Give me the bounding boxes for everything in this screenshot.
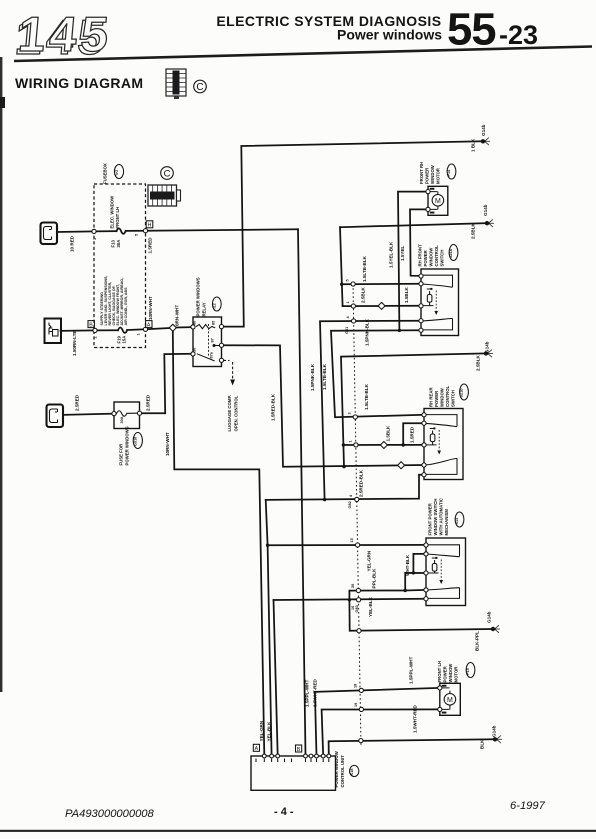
svg-text:YEL-GRN: YEL-GRN <box>259 720 264 741</box>
svg-text:1: 1 <box>137 333 141 335</box>
svg-text:CONTROL: CONTROL <box>445 385 450 407</box>
svg-text:WIRING DIAGRAM: WIRING DIAGRAM <box>15 75 143 91</box>
svg-text:C: C <box>164 169 171 180</box>
svg-text:MOTOR: MOTOR <box>436 167 441 184</box>
svg-text:G82: G82 <box>348 501 352 508</box>
svg-text:RH REAR: RH REAR <box>429 387 434 407</box>
svg-text:1.50RN-LTB: 1.50RN-LTB <box>72 330 77 356</box>
svg-text:POWER WINDOWS: POWER WINDOWS <box>196 277 201 316</box>
svg-text:1.5WHT-RED: 1.5WHT-RED <box>313 678 318 707</box>
svg-text:AIR COND., EGR, ABS: AIR COND., EGR, ABS <box>124 287 128 326</box>
svg-text:FRONT RH: FRONT RH <box>419 162 424 184</box>
svg-text:RH FRONT: RH FRONT <box>418 244 423 267</box>
svg-text:1.5BLK: 1.5BLK <box>386 425 391 442</box>
svg-text:1.5YEL-BLK: 1.5YEL-BLK <box>389 241 394 268</box>
svg-text:S13: S13 <box>455 518 459 525</box>
svg-text:BLK-PPL: BLK-PPL <box>475 631 480 651</box>
svg-text:POWER WINDOWS: POWER WINDOWS <box>125 426 130 465</box>
svg-text:WINDOW: WINDOW <box>440 387 445 407</box>
svg-text:CONTROL: CONTROL <box>434 245 439 267</box>
svg-text:- 4 -: - 4 - <box>274 806 294 818</box>
svg-text:19: 19 <box>354 703 358 707</box>
svg-text:POWER: POWER <box>443 665 448 682</box>
svg-text:S21b: S21b <box>460 388 464 398</box>
svg-text:WITH AUTOMATIC: WITH AUTOMATIC <box>439 498 444 535</box>
svg-text:3: 3 <box>348 412 352 414</box>
svg-text:SWITCH: SWITCH <box>440 250 445 267</box>
svg-text:C: C <box>196 82 203 93</box>
svg-text:2.5BLK: 2.5BLK <box>471 222 476 239</box>
svg-text:G1: G1 <box>114 169 119 175</box>
svg-text:G14b: G14b <box>492 725 497 737</box>
svg-text:WINDOW: WINDOW <box>429 247 434 267</box>
svg-text:OPEN. CONTROL: OPEN. CONTROL <box>234 395 239 431</box>
svg-text:POWER: POWER <box>423 249 428 266</box>
svg-text:10RN-WHT: 10RN-WHT <box>165 432 170 456</box>
svg-text:1.5WHT-RED: 1.5WHT-RED <box>413 704 418 733</box>
svg-text:POWER WINDOW: POWER WINDOW <box>334 750 339 787</box>
svg-text:S21a: S21a <box>449 248 453 258</box>
svg-text:FUSE FOR: FUSE FOR <box>119 443 124 466</box>
svg-text:MECHANISM: MECHANISM <box>444 509 449 536</box>
svg-text:1.5RED: 1.5RED <box>148 237 153 254</box>
svg-text:I12: I12 <box>213 303 217 308</box>
svg-text:K18: K18 <box>350 769 354 776</box>
svg-text:10 RED: 10 RED <box>70 235 75 252</box>
svg-text:-23: -23 <box>499 20 538 50</box>
svg-text:B: B <box>297 747 301 753</box>
svg-text:FRONT LH: FRONT LH <box>115 207 120 229</box>
svg-text:FRONT POWER: FRONT POWER <box>428 502 433 535</box>
svg-text:1.5PPL-WHT: 1.5PPL-WHT <box>305 679 310 707</box>
svg-text:2.5RED-BLK: 2.5RED-BLK <box>359 469 364 497</box>
svg-text:2.5RED: 2.5RED <box>75 394 80 411</box>
svg-text:WINDOW: WINDOW <box>430 164 435 184</box>
svg-text:1: 1 <box>346 301 350 303</box>
svg-text:86: 86 <box>193 321 197 325</box>
svg-text:CONTROL UNIT: CONTROL UNIT <box>340 755 345 788</box>
svg-text:20: 20 <box>351 584 355 588</box>
svg-text:G14b: G14b <box>481 124 486 136</box>
svg-text:A: A <box>255 746 259 752</box>
svg-text:WINDOW SWITCH: WINDOW SWITCH <box>433 499 438 536</box>
svg-text:Power windows: Power windows <box>337 27 442 43</box>
svg-text:1.5LTB-BLK: 1.5LTB-BLK <box>322 363 327 390</box>
svg-text:1 BLK: 1 BLK <box>471 138 476 152</box>
svg-text:G310: G310 <box>134 437 138 446</box>
svg-text:1: 1 <box>348 440 352 442</box>
svg-text:FUSEBOX: FUSEBOX <box>103 163 108 184</box>
svg-text:G81: G81 <box>345 327 349 334</box>
svg-text:2.5RED: 2.5RED <box>146 394 151 411</box>
svg-text:87a: 87a <box>210 351 214 358</box>
svg-text:87: 87 <box>211 338 215 342</box>
svg-text:G14b: G14b <box>485 341 490 353</box>
svg-text:RELAY: RELAY <box>202 302 207 316</box>
svg-text:POWER: POWER <box>425 167 430 184</box>
svg-text:BLK: BLK <box>480 739 485 749</box>
svg-text:A: A <box>147 323 151 329</box>
svg-text:PPL-BLK: PPL-BLK <box>372 568 377 589</box>
svg-text:MOTOR: MOTOR <box>454 666 459 683</box>
svg-text:0RN-WHT: 0RN-WHT <box>175 305 180 326</box>
svg-text:18: 18 <box>354 684 358 688</box>
svg-text:30: 30 <box>193 348 197 352</box>
svg-text:P15: P15 <box>466 668 470 675</box>
svg-text:2.5BLK: 2.5BLK <box>476 354 481 371</box>
svg-text:PA493000000008: PA493000000008 <box>65 808 155 820</box>
svg-text:YEL-GRN: YEL-GRN <box>367 550 372 571</box>
svg-text:WHT-BLK: WHT-BLK <box>405 554 410 576</box>
svg-text:30A: 30A <box>116 240 121 248</box>
svg-text:55: 55 <box>447 4 496 55</box>
svg-text:2: 2 <box>94 336 98 338</box>
svg-text:YEL-BLK: YEL-BLK <box>368 596 373 617</box>
svg-text:1.5RED: 1.5RED <box>410 426 415 443</box>
svg-text:G14b: G14b <box>483 204 488 216</box>
svg-text:P14: P14 <box>447 169 451 177</box>
svg-text:G14b: G14b <box>487 611 492 623</box>
svg-text:M: M <box>447 697 453 704</box>
svg-text:1.5PNK-BLK: 1.5PNK-BLK <box>365 318 370 346</box>
svg-text:YEL-BLK: YEL-BLK <box>267 721 272 742</box>
svg-text:G83: G83 <box>355 605 359 612</box>
svg-text:145: 145 <box>16 8 114 62</box>
svg-text:5: 5 <box>135 234 139 236</box>
svg-text:10RN-WHT: 10RN-WHT <box>148 296 153 320</box>
svg-text:WINDOW: WINDOW <box>448 663 453 683</box>
svg-text:POWER: POWER <box>434 390 439 407</box>
svg-text:1.5LTB-BLK: 1.5LTB-BLK <box>362 255 367 282</box>
svg-text:2.5BLK: 2.5BLK <box>361 286 366 303</box>
svg-text:1.5BLK: 1.5BLK <box>404 286 409 303</box>
svg-text:B: B <box>89 323 93 329</box>
svg-text:1.5RED-BLK: 1.5RED-BLK <box>271 393 276 421</box>
svg-text:5: 5 <box>346 279 350 281</box>
svg-text:1.5LTB-BLK: 1.5LTB-BLK <box>364 383 369 410</box>
svg-text:3: 3 <box>93 238 97 240</box>
svg-text:LUGGAGE COMP.: LUGGAGE COMP. <box>227 395 232 431</box>
svg-text:15: 15 <box>350 538 354 542</box>
svg-text:M: M <box>435 198 441 205</box>
svg-text:1.5YEL: 1.5YEL <box>400 245 405 261</box>
svg-text:1.5PPL-WHT: 1.5PPL-WHT <box>409 656 414 684</box>
svg-text:15A: 15A <box>122 336 127 344</box>
svg-text:6-1997: 6-1997 <box>510 800 546 812</box>
svg-text:1.5PNK-BLK: 1.5PNK-BLK <box>310 363 315 391</box>
svg-text:30A: 30A <box>120 416 124 423</box>
svg-text:FRONT LH: FRONT LH <box>437 661 442 683</box>
svg-text:85: 85 <box>212 321 216 325</box>
svg-text:SWITCH: SWITCH <box>451 390 456 407</box>
svg-text:H: H <box>148 223 152 229</box>
